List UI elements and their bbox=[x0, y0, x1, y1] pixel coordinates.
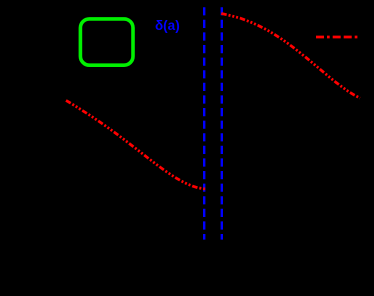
svg-text:δ(a): δ(a) bbox=[155, 18, 180, 33]
green highlight box bbox=[80, 19, 133, 65]
vertical dashed line left bbox=[203, 7, 205, 239]
legend line sample bbox=[316, 36, 359, 39]
vertical dashed line right bbox=[221, 7, 223, 239]
red curve right branch bbox=[221, 14, 360, 99]
red curve left branch bbox=[66, 100, 207, 189]
